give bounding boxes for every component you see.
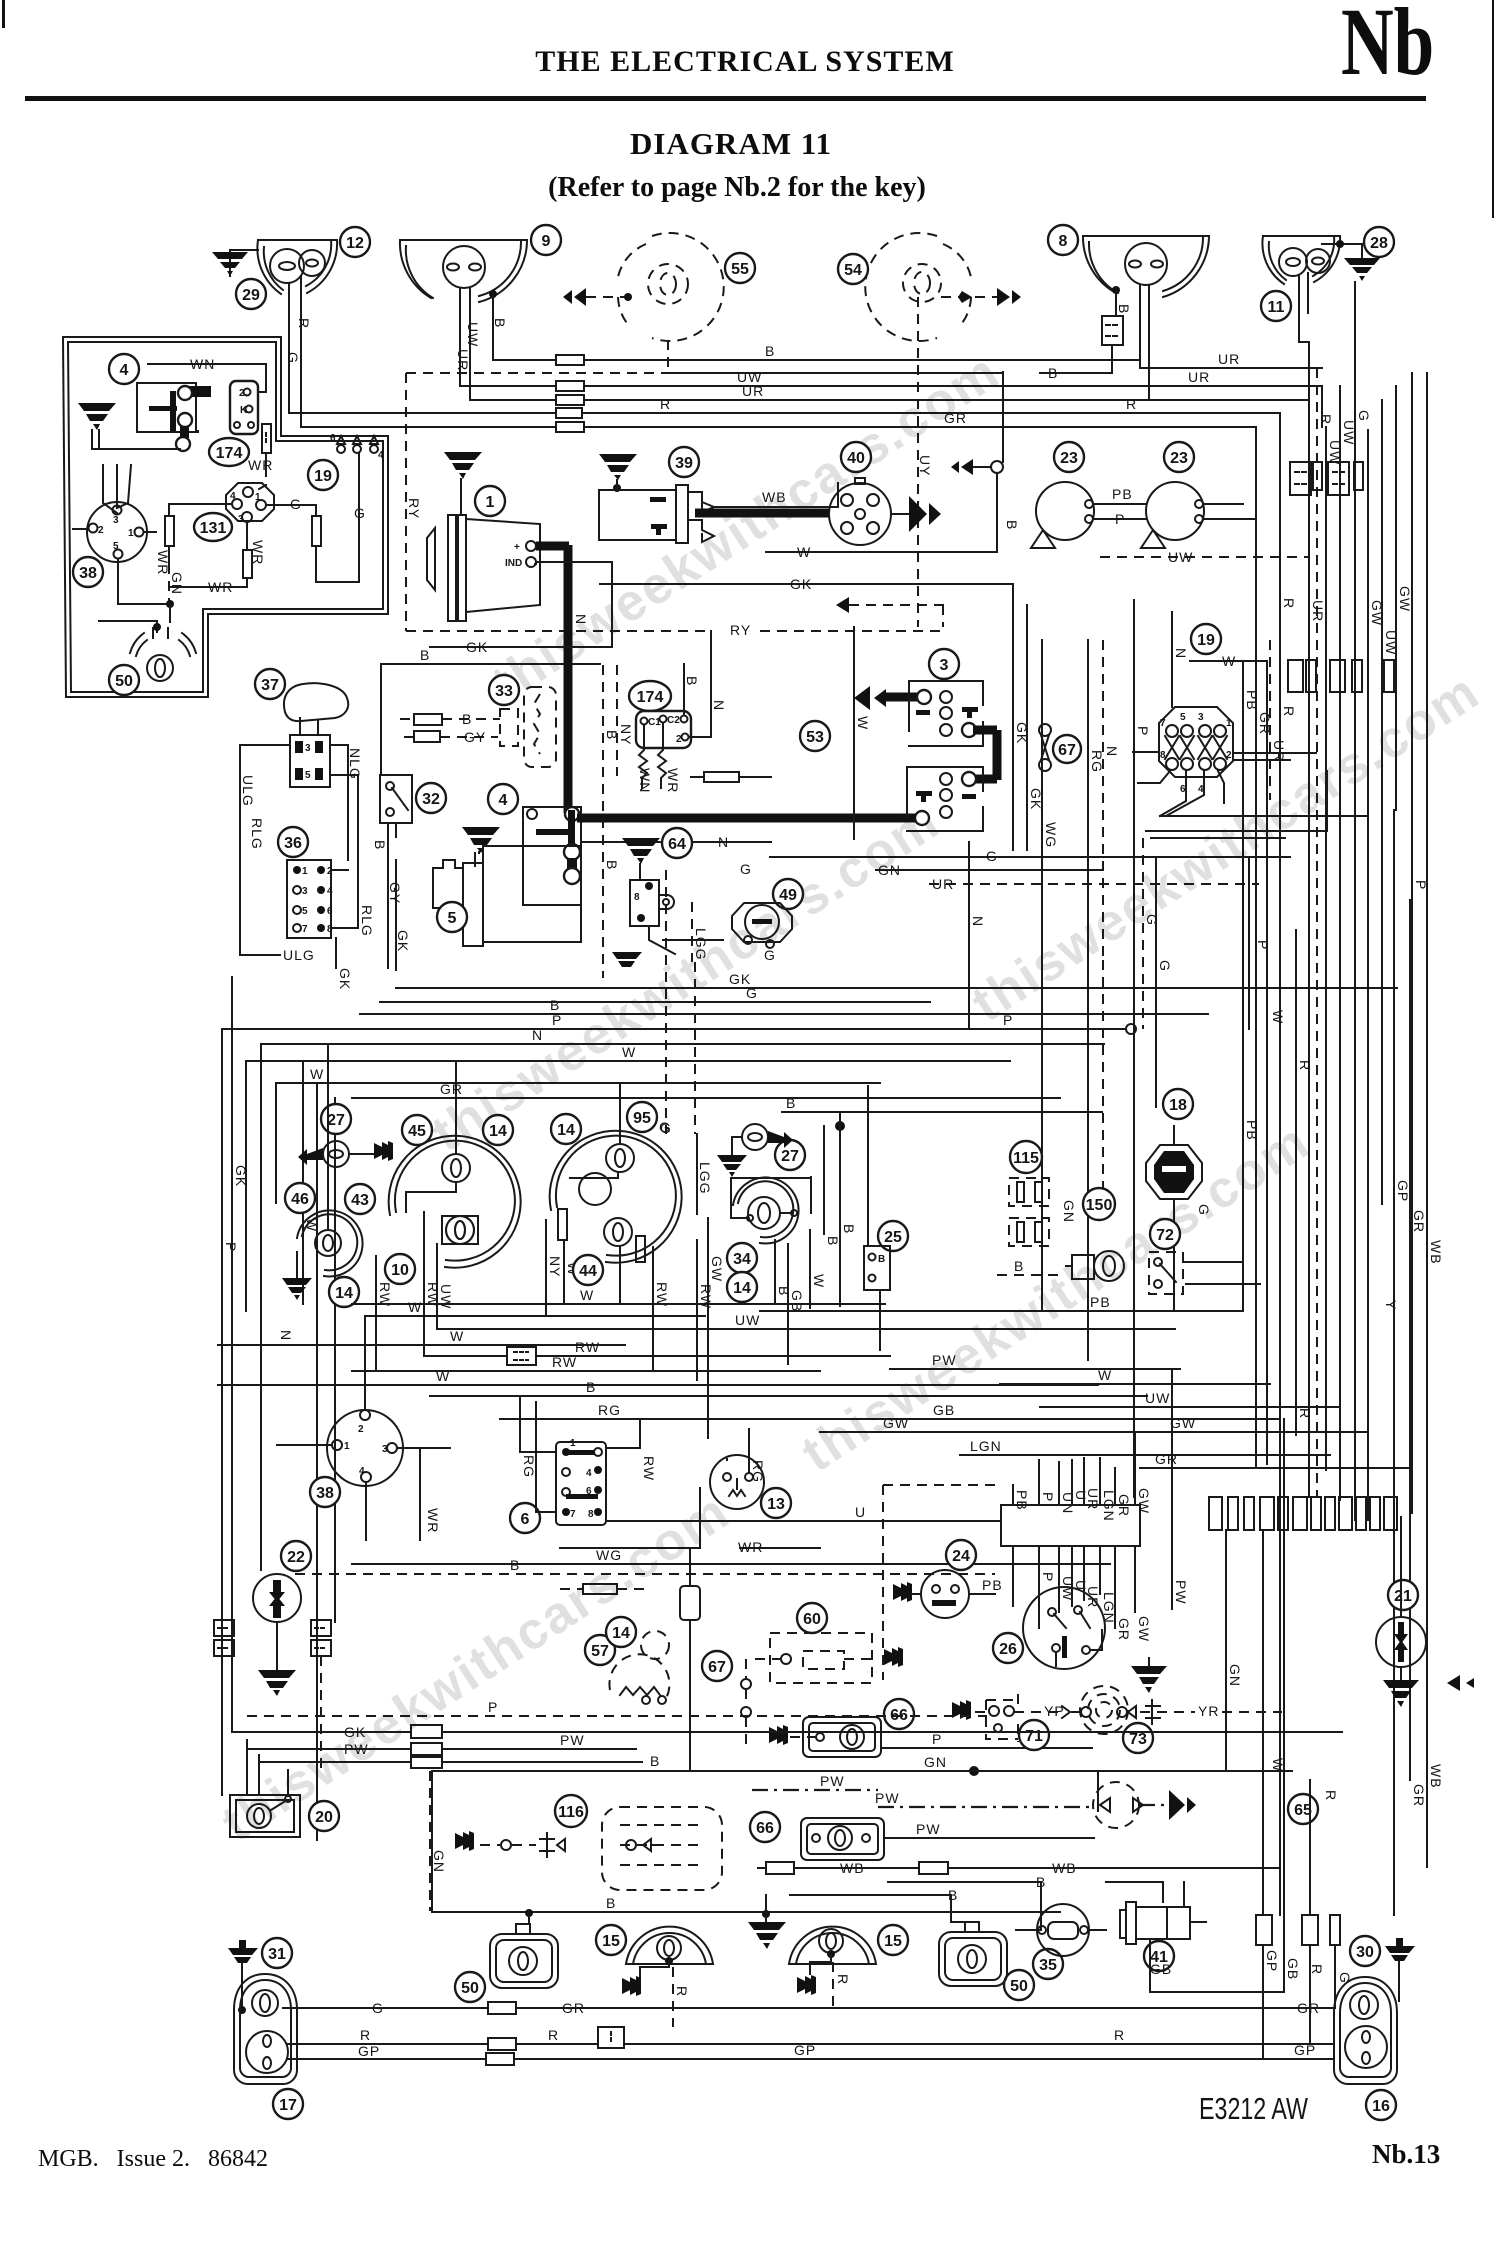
svg-text:1: 1 <box>1226 718 1232 729</box>
svg-text:RY: RY <box>406 498 422 519</box>
svg-text:B: B <box>786 1095 796 1111</box>
svg-text:GK: GK <box>395 930 411 952</box>
label 29 <box>236 279 266 309</box>
connector solid mid <box>680 1586 700 1620</box>
svg-text:1: 1 <box>302 866 308 877</box>
side lamp 54 dashed <box>865 233 937 341</box>
svg-text:40: 40 <box>847 450 865 467</box>
N row from starter <box>581 841 771 843</box>
tail lamp cluster 16/30 <box>1334 1977 1397 2084</box>
gnd under 64 <box>612 952 642 967</box>
svg-text:116: 116 <box>558 1804 584 1821</box>
wire G from 131 <box>267 504 303 506</box>
svg-text:14: 14 <box>335 1285 353 1302</box>
svg-text:4: 4 <box>359 1466 365 1477</box>
row R y413 <box>289 412 1280 414</box>
svg-text:57: 57 <box>591 1643 609 1660</box>
row G y2008 <box>283 2007 1334 2009</box>
svg-text:2: 2 <box>358 1424 364 1435</box>
wire GB from 41 <box>1150 1939 1284 1992</box>
page edge marks <box>2 0 5 28</box>
svg-text:38: 38 <box>79 565 97 582</box>
svg-text:W: W <box>1098 1367 1112 1383</box>
headlamp 11 shell <box>1262 236 1340 284</box>
svg-text:G: G <box>986 848 998 864</box>
boot lamp 50 left <box>455 1972 485 2002</box>
svg-text:GK: GK <box>466 639 488 655</box>
svg-text:WR: WR <box>248 457 273 473</box>
ballast resistor 41 <box>1144 1941 1174 1971</box>
octagon connector 19 <box>1191 624 1221 654</box>
svg-text:27: 27 <box>327 1112 345 1129</box>
connector rects right band <box>1288 660 1303 692</box>
headlamp 12 shell <box>257 240 337 294</box>
GB vertical x1284 <box>1283 1419 1285 1992</box>
B dashed row y1275 <box>997 1274 1065 1276</box>
fuses right column bottom <box>1256 1915 1272 1945</box>
svg-text:7: 7 <box>1160 718 1166 729</box>
svg-text:W: W <box>1222 653 1236 669</box>
connector rects right band upper <box>1290 462 1311 495</box>
svg-text:B: B <box>372 840 388 850</box>
svg-text:24: 24 <box>952 1548 970 1565</box>
PW fuse row y1749 <box>247 1748 636 1750</box>
wire UW x1340 <box>1339 386 1341 1500</box>
svg-text:GP: GP <box>794 2042 816 2058</box>
svg-text:WB: WB <box>762 489 787 505</box>
footer <box>38 2091 1440 2172</box>
header <box>2 0 1494 218</box>
svg-text:GR: GR <box>440 1081 463 1097</box>
P vertical x1254 <box>1248 857 1250 1029</box>
wire WR from 131 pin3 <box>246 522 248 550</box>
hexagon connector 131 <box>226 483 274 521</box>
label 14d <box>727 1272 757 1302</box>
svg-text:GN: GN <box>1227 1664 1243 1687</box>
svg-text:GB: GB <box>1285 1958 1301 1980</box>
wires at 38 <box>277 1316 450 1540</box>
row B y373 dashed left <box>406 372 672 374</box>
inset border inner <box>68 342 383 692</box>
P dashed row y1716 <box>247 1715 987 1717</box>
svg-text:R: R <box>296 318 312 329</box>
row B y1895 <box>790 1895 972 1922</box>
ground (headlamp 12) <box>230 250 258 276</box>
svg-text:(Refer to page Nb.2 for the ke: (Refer to page Nb.2 for the key) <box>548 172 926 203</box>
instrument cluster <box>218 1044 1175 1540</box>
svg-text:20: 20 <box>315 1809 333 1826</box>
wire GW x1368 <box>1367 430 1369 1520</box>
repeater lamp 34 <box>733 1177 799 1243</box>
map lamp 50 <box>130 633 196 656</box>
headlamp 9 shell <box>400 240 527 302</box>
dashed B NY verticals <box>602 665 604 978</box>
relay 174 engine <box>629 681 671 711</box>
svg-text:PB: PB <box>1244 690 1260 711</box>
svg-text:95: 95 <box>633 1110 651 1127</box>
svg-text:G: G <box>1196 1204 1212 1216</box>
svg-text:B: B <box>948 1887 958 1903</box>
svg-text:YR: YR <box>1198 1703 1219 1719</box>
flasher unit 35 <box>1033 1949 1063 1979</box>
gear knob 37 <box>255 669 285 699</box>
svg-text:P: P <box>1040 1492 1056 1502</box>
svg-text:GY: GY <box>464 729 486 745</box>
svg-text:37: 37 <box>261 677 279 694</box>
svg-text:PB: PB <box>1244 1120 1260 1141</box>
headlamp 8 shell <box>1083 236 1209 297</box>
PB GR R verticals right <box>1242 661 1244 781</box>
svg-text:49: 49 <box>779 887 797 904</box>
tail lamp cluster 17/31 <box>234 1974 297 2084</box>
svg-text:N: N <box>573 614 589 625</box>
ignition distributor 38 <box>327 1410 403 1486</box>
svg-text:B: B <box>1036 1874 1046 1890</box>
svg-text:WB: WB <box>840 1860 865 1876</box>
wire UY dashed from 54 <box>917 297 919 627</box>
row W y1384 <box>1000 1383 1270 1385</box>
svg-text:53: 53 <box>806 729 824 746</box>
svg-text:R: R <box>1126 396 1137 412</box>
svg-text:B: B <box>765 343 775 359</box>
wire WR dashed to 131 <box>252 467 266 493</box>
svg-text:B: B <box>462 711 472 727</box>
label 14a <box>483 1115 513 1145</box>
fuse dashed left of 57 <box>583 1584 617 1594</box>
label 174 <box>209 438 249 466</box>
svg-text:3: 3 <box>940 657 949 674</box>
wires around repeater <box>697 1134 811 1438</box>
svg-text:UR: UR <box>1188 369 1210 385</box>
svg-text:P: P <box>488 1699 498 1715</box>
distributor 38 cap leads <box>103 465 131 513</box>
gnd under fuel gauge <box>296 1252 298 1278</box>
wire WN <box>148 364 266 392</box>
heater fan 33 dashed <box>489 675 519 705</box>
svg-text:PW: PW <box>344 1741 369 1757</box>
svg-text:4: 4 <box>327 886 333 897</box>
svg-text:N: N <box>1173 648 1189 659</box>
switch 71 <box>1019 1720 1049 1750</box>
W row under dynamo <box>766 551 997 553</box>
row RW y1371 <box>352 1370 820 1372</box>
left inset box <box>63 337 388 697</box>
svg-text:NY: NY <box>618 724 634 745</box>
harness connector block <box>1001 1505 1140 1546</box>
svg-text:GB: GB <box>789 1290 805 1312</box>
svg-text:GR: GR <box>1411 1784 1427 1807</box>
wire UW x1382 <box>1381 400 1383 1204</box>
WG vertical <box>1041 640 1043 850</box>
gnd arrow top <box>836 597 849 613</box>
row N y1044 <box>261 1044 1104 1570</box>
wire UR x1309 <box>1308 400 1310 1497</box>
svg-text:B: B <box>492 318 508 328</box>
svg-text:1: 1 <box>128 528 134 539</box>
svg-text:GR: GR <box>562 2000 585 2016</box>
gnd bottom center <box>762 1910 770 1918</box>
horn 23 right <box>1164 442 1194 472</box>
fuse right of 174 <box>262 424 271 453</box>
side lamp 55 dashed <box>652 233 724 341</box>
svg-text:GW: GW <box>883 1415 909 1431</box>
svg-text:4: 4 <box>499 792 508 809</box>
jog of band rows to margin <box>1140 368 1322 427</box>
svg-text:G: G <box>746 985 758 1001</box>
plate lamp 15 left <box>596 1925 626 1955</box>
svg-text:B: B <box>684 676 700 686</box>
wires at 6 <box>520 1396 556 1512</box>
svg-text:36: 36 <box>284 835 302 852</box>
label 34 <box>727 1243 757 1273</box>
B row y1112 <box>782 1111 1102 1113</box>
row R y2044 <box>288 2043 1334 2045</box>
row GB y1419 <box>640 1418 1280 1420</box>
svg-text:P: P <box>1003 1012 1013 1028</box>
row W y1061 <box>246 1061 1010 1311</box>
svg-text:G: G <box>1157 960 1173 972</box>
svg-text:16: 16 <box>1372 2098 1390 2115</box>
wire LGG from 64 <box>691 902 693 962</box>
map light switch 20 <box>309 1801 339 1831</box>
svg-text:27: 27 <box>781 1148 799 1165</box>
svg-text:5: 5 <box>1180 712 1186 723</box>
thick lead dynamo-distributor <box>695 509 829 518</box>
ignition coil 4 <box>488 784 518 814</box>
wire GK x232 <box>231 977 233 1725</box>
wire from 131 pin4 <box>169 504 232 516</box>
svg-text:B: B <box>650 1753 660 1769</box>
svg-text:WR: WR <box>208 579 233 595</box>
row W y1083 <box>276 1083 880 1203</box>
svg-text:G: G <box>285 352 301 364</box>
label 131 <box>194 513 232 541</box>
svg-text:PW: PW <box>932 1352 957 1368</box>
switch 115 connectors <box>1010 1141 1042 1173</box>
svg-text:64: 64 <box>668 836 686 853</box>
inertia switch 24 <box>946 1540 976 1570</box>
svg-text:RLG: RLG <box>249 818 265 850</box>
label 46 <box>285 1183 315 1213</box>
battery 3 <box>929 649 959 679</box>
svg-text:WR: WR <box>665 768 681 793</box>
svg-text:GP: GP <box>1294 2042 1316 2058</box>
svg-text:14: 14 <box>489 1123 507 1140</box>
G vertical x1156 <box>1155 857 1157 1107</box>
svg-text:6: 6 <box>521 1511 530 1528</box>
svg-text:3: 3 <box>1198 712 1204 723</box>
wire GN dashed down to lamp <box>168 564 170 603</box>
tachometer gauge <box>550 1131 682 1263</box>
svg-text:2: 2 <box>676 734 682 745</box>
svg-text:GP: GP <box>1264 1950 1280 1972</box>
wire drops from rows to gauges <box>328 1044 620 1230</box>
svg-text:RW: RW <box>641 1456 657 1481</box>
label 8 <box>1048 225 1078 255</box>
arrow lamp 54 <box>997 288 1021 306</box>
wire GW x1396 <box>1395 386 1397 810</box>
svg-text:6: 6 <box>327 906 333 917</box>
svg-text:N: N <box>970 916 986 927</box>
svg-text:W: W <box>855 716 871 730</box>
PB vertical x1243 <box>1242 781 1244 1311</box>
svg-text:WG: WG <box>596 1547 622 1563</box>
svg-text:55: 55 <box>731 261 749 278</box>
svg-text:1: 1 <box>486 494 495 511</box>
row U y1521 <box>606 1459 1001 1521</box>
svg-text:1: 1 <box>255 492 261 503</box>
row RG y1419 <box>500 1418 1090 1420</box>
wire P from 66a <box>881 1747 1092 1749</box>
svg-text:W: W <box>450 1328 464 1344</box>
gnd right of 27 <box>374 1141 393 1161</box>
svg-text:B: B <box>1116 304 1132 314</box>
wire R from lamp 12 <box>289 276 301 427</box>
svg-text:2: 2 <box>327 866 333 877</box>
interior boot box <box>432 1771 1098 1912</box>
svg-text:115: 115 <box>1013 1150 1039 1167</box>
svg-text:R: R <box>835 1974 851 1985</box>
GN dashed vertical <box>429 1771 431 1911</box>
svg-text:34: 34 <box>733 1251 751 1268</box>
svg-text:W: W <box>622 1044 636 1060</box>
svg-text:67: 67 <box>708 1659 726 1676</box>
connector row right <box>1209 1497 1222 1530</box>
svg-text:B: B <box>550 997 560 1013</box>
svg-text:+: + <box>514 542 520 553</box>
wire WB to distributor 40 <box>714 483 838 507</box>
svg-text:R: R <box>1297 1060 1313 1071</box>
gnd left of 66a <box>769 1725 788 1745</box>
svg-text:3: 3 <box>382 1444 388 1455</box>
svg-text:UW: UW <box>438 1284 454 1309</box>
svg-text:23: 23 <box>1060 450 1078 467</box>
row LGN y1455 <box>960 1454 1330 1456</box>
svg-text:GW: GW <box>1136 1616 1152 1642</box>
gnd under 22 <box>258 1670 296 1696</box>
svg-text:GK: GK <box>790 576 812 592</box>
switch 72 <box>1150 1219 1180 1249</box>
svg-text:GW: GW <box>1170 1415 1196 1431</box>
GN vertical x1226 <box>1225 1530 1227 1771</box>
distributor 38 <box>87 502 147 562</box>
number plate lamp 66a <box>884 1699 914 1729</box>
svg-text:GB: GB <box>1150 1961 1172 1977</box>
fuse right of 174 <box>704 772 739 782</box>
svg-text:15: 15 <box>884 1933 902 1950</box>
turn indicator lamp 27 left <box>321 1104 351 1134</box>
tail lamp left gnd 31 <box>262 1938 292 1968</box>
boot lamp 50 right <box>1004 1970 1034 2000</box>
row WR y1548 <box>560 1547 820 1549</box>
wire GR x1256 <box>1255 427 1257 1468</box>
svg-text:UW: UW <box>1145 1390 1170 1406</box>
svg-text:3: 3 <box>302 886 308 897</box>
thick cable to battery <box>577 814 909 823</box>
label 14c <box>551 1114 581 1144</box>
gnd left of 24 <box>893 1582 912 1602</box>
svg-text:RG: RG <box>521 1455 537 1478</box>
svg-text:WR: WR <box>738 1539 763 1555</box>
svg-text:Nb: Nb <box>1341 0 1434 95</box>
svg-text:45: 45 <box>408 1123 426 1140</box>
svg-text:50: 50 <box>115 673 133 690</box>
W vertical x1269 <box>1266 661 1268 1464</box>
B riser from band <box>1002 372 1004 462</box>
wires from 36 <box>240 860 358 955</box>
W vertical left of battery <box>853 627 855 839</box>
wire from IND <box>535 562 612 647</box>
solenoid switch 64 <box>662 828 692 858</box>
svg-text:4: 4 <box>230 491 236 502</box>
inset border outer <box>63 337 388 697</box>
connector 67 <box>1039 724 1051 736</box>
svg-text:G: G <box>372 2000 384 2016</box>
row W y1304 <box>352 1303 885 1305</box>
svg-text:LGN: LGN <box>970 1438 1002 1454</box>
svg-text:P: P <box>932 1731 942 1747</box>
engine bay center <box>240 372 1368 990</box>
svg-text:PB: PB <box>1090 1294 1111 1310</box>
svg-text:5: 5 <box>448 910 457 927</box>
svg-text:33: 33 <box>495 683 513 700</box>
top bus band <box>289 340 1444 1915</box>
horn switch 73 <box>1123 1723 1153 1753</box>
relay 174 <box>230 381 258 434</box>
connector pair mid <box>311 1620 331 1636</box>
G dashed vertical x666 <box>665 870 667 1134</box>
gnd left of 116 <box>455 1831 474 1851</box>
svg-text:RW: RW <box>552 1354 577 1370</box>
GK row to vertical <box>600 583 1013 585</box>
wire 38 pin5 down <box>118 559 170 604</box>
speedometer gauge <box>389 1136 521 1268</box>
svg-text:174: 174 <box>216 445 243 462</box>
svg-text:DIAGRAM 11: DIAGRAM 11 <box>630 126 832 161</box>
svg-text:W: W <box>310 1066 324 1082</box>
svg-text:G: G <box>1356 410 1372 422</box>
right panel <box>640 1089 1474 1992</box>
svg-text:21: 21 <box>1394 1588 1412 1605</box>
svg-text:GR: GR <box>1411 1210 1427 1233</box>
svg-text:8: 8 <box>588 1509 594 1520</box>
ground inset <box>78 403 116 430</box>
svg-text:G: G <box>290 496 302 512</box>
svg-text:22: 22 <box>287 1549 305 1566</box>
watermarks <box>212 342 1490 1853</box>
horn 23 left <box>1054 442 1084 472</box>
svg-text:UR: UR <box>742 383 764 399</box>
svg-text:B: B <box>420 647 430 663</box>
svg-text:GN: GN <box>924 1754 947 1770</box>
svg-text:30: 30 <box>1356 1944 1374 1961</box>
gnd left of 71 <box>952 1700 971 1720</box>
svg-text:3: 3 <box>305 743 311 754</box>
row B y1912 <box>432 1911 1060 1913</box>
verticals into block <box>1012 1485 1014 1606</box>
wires UW UR B from lamp 9 <box>460 288 470 400</box>
svg-text:B: B <box>606 1895 616 1911</box>
svg-text:GK: GK <box>344 1724 366 1740</box>
svg-text:R: R <box>360 2027 371 2043</box>
wires ULG RLG NLG from 37 <box>240 745 358 955</box>
svg-text:PW: PW <box>916 1821 941 1837</box>
wire B + connector from lamp 8 <box>1112 286 1120 294</box>
mid rows and verticals <box>222 661 1427 1915</box>
wire WB x1427 <box>1426 373 1428 1867</box>
headlamp 9 bulb <box>443 246 485 288</box>
row PW y1369 <box>890 1368 1180 1370</box>
